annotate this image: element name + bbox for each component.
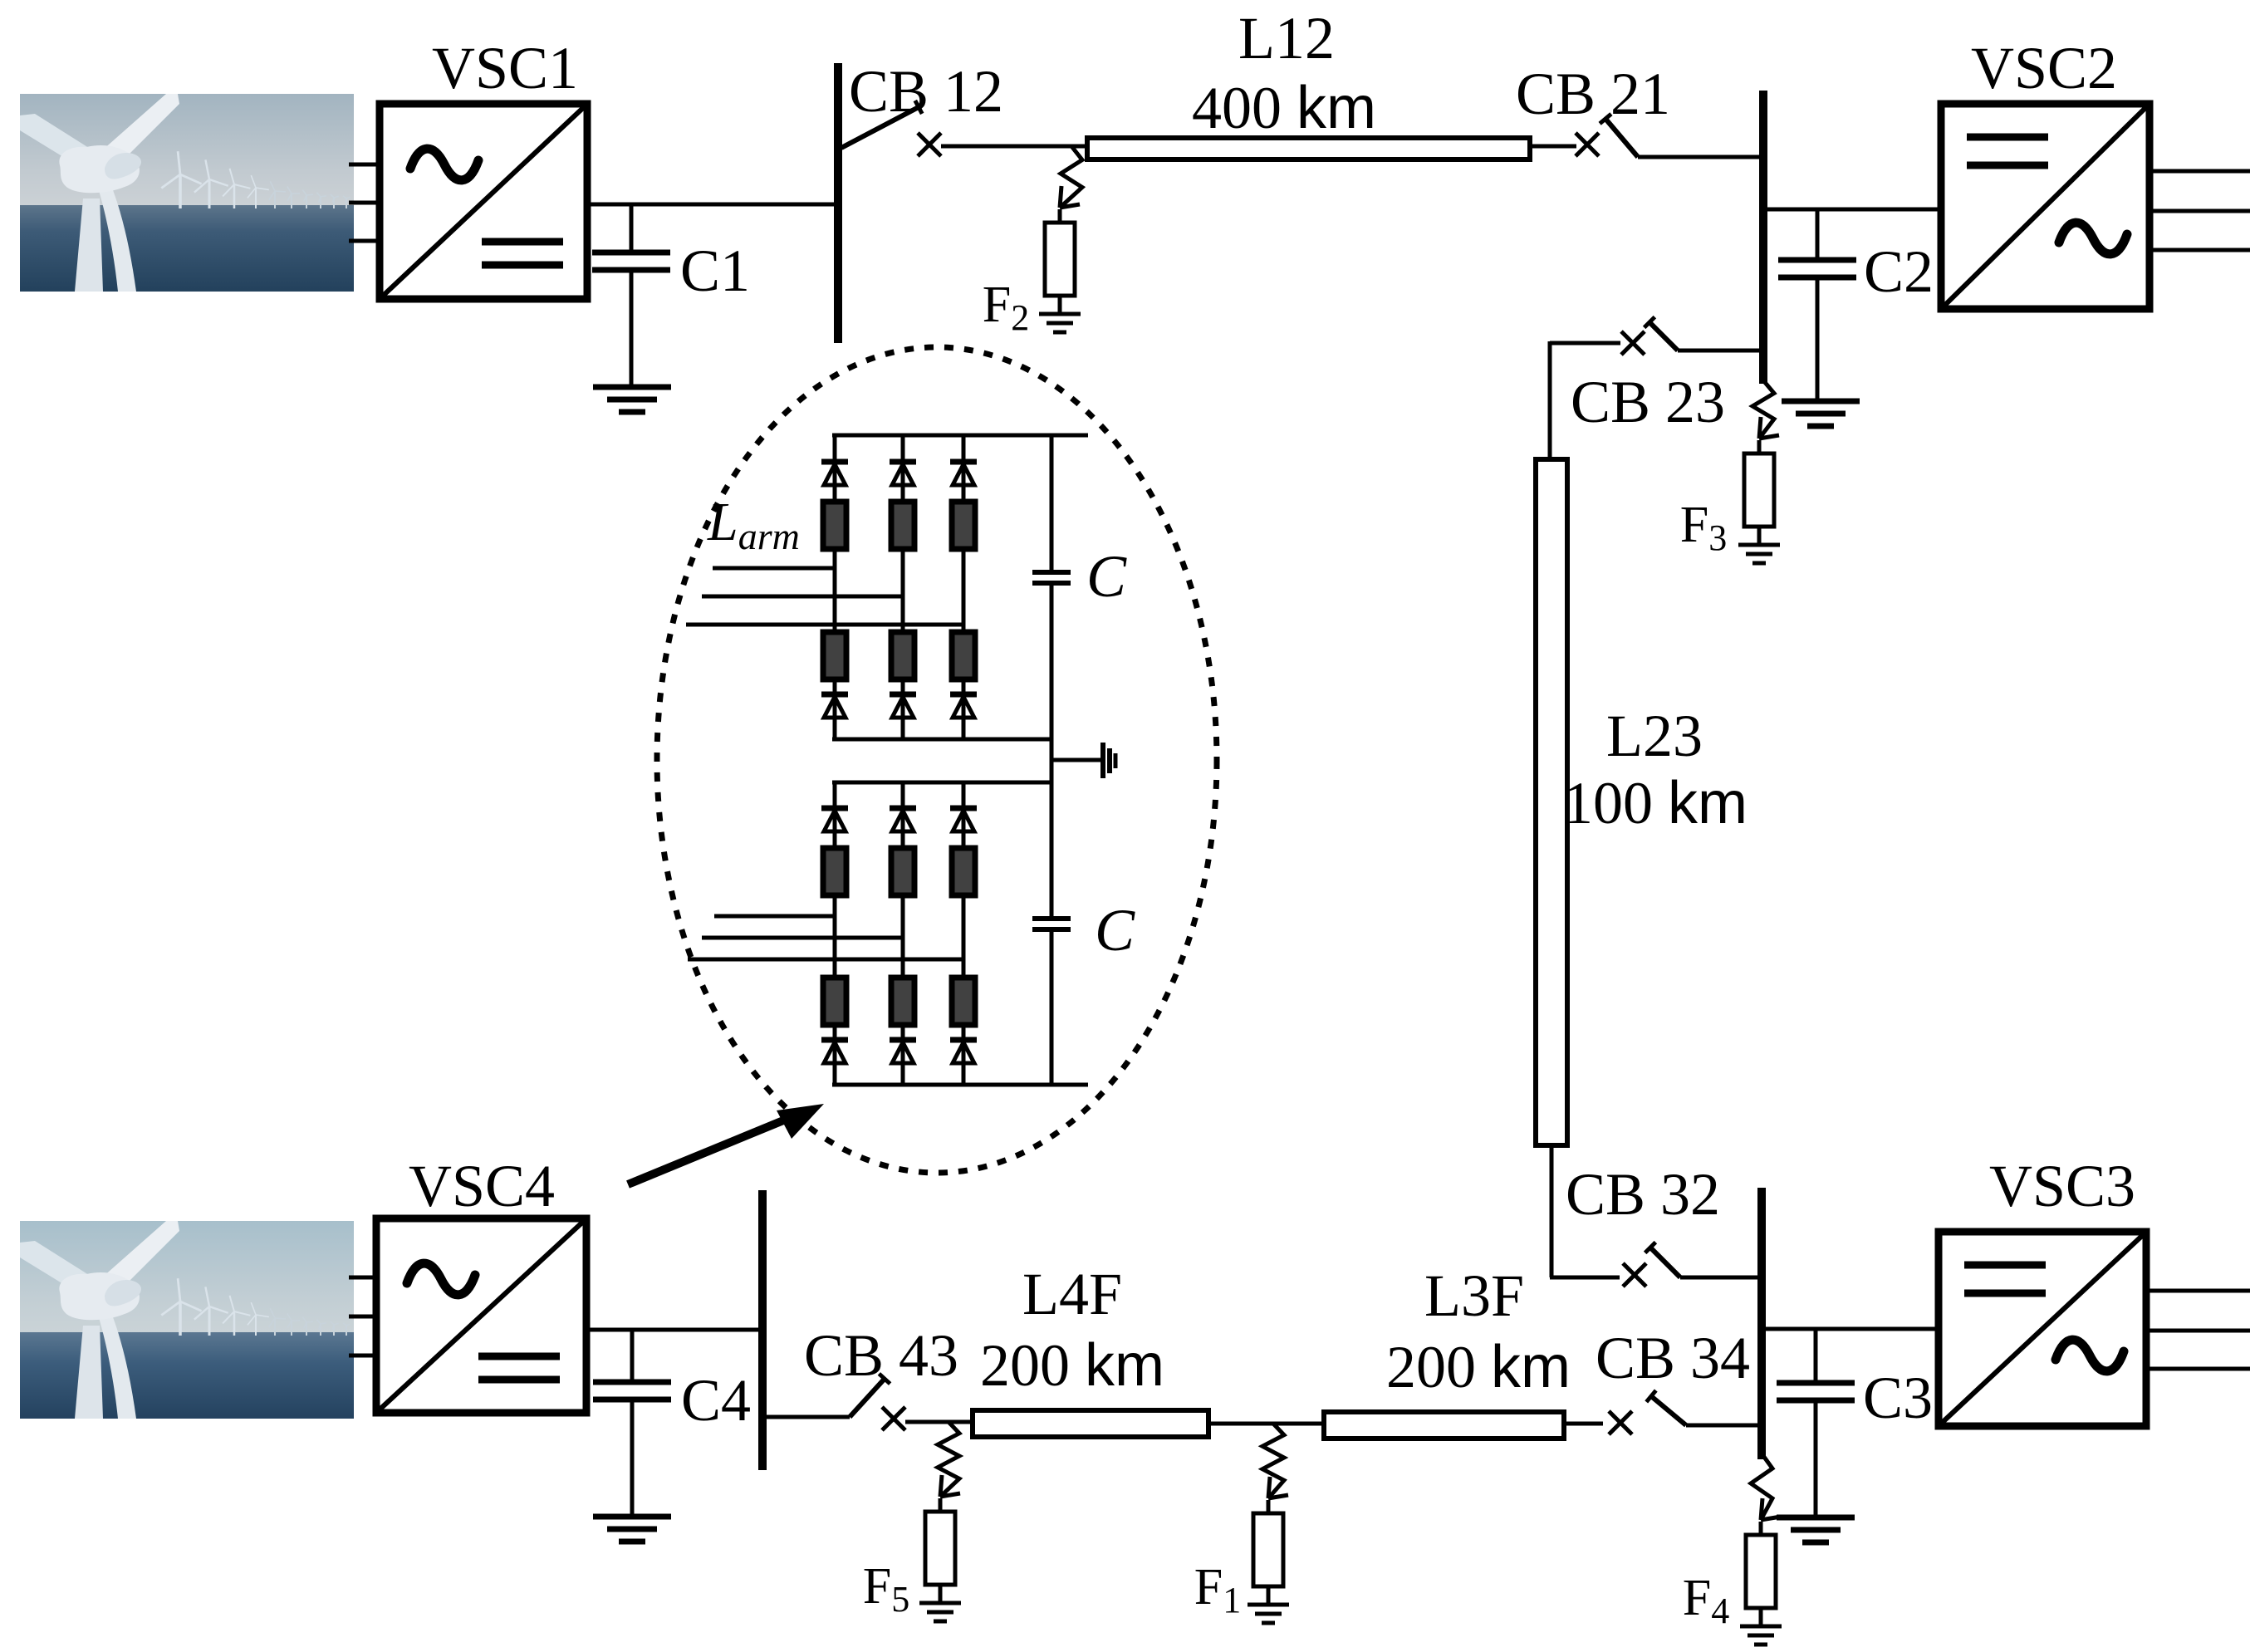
svg-text:CB 21: CB 21 — [1516, 61, 1670, 127]
wire AC phase a VSC3 — [2146, 1289, 2250, 1293]
label Larm — [707, 492, 800, 557]
capacitor C3 — [1777, 1329, 1855, 1517]
label L4F — [1022, 1261, 1122, 1327]
wire AC input upper arm phase 2 — [702, 595, 903, 599]
arm module (lower arm leg 3 lower) — [952, 978, 975, 1025]
wire CB 43 to line L4F — [905, 1420, 973, 1424]
dashed ellipse (MMC converter detail) — [657, 347, 1217, 1173]
label CB 32 — [1566, 1161, 1720, 1228]
diode (upper arm leg 1 bottom) — [821, 694, 848, 718]
wire AC phase b VSC1 — [349, 201, 380, 205]
label CB 12 — [849, 58, 1003, 125]
diode (lower arm leg 3 top) — [950, 808, 977, 831]
arm module (lower arm leg 3 upper) — [952, 848, 975, 895]
capacitor C2 — [1778, 209, 1856, 401]
svg-text:100 km: 100 km — [1563, 770, 1748, 836]
capacitor C (lower DC link) — [1032, 782, 1071, 1085]
ground (C4) — [593, 1517, 671, 1542]
diode (upper arm leg 1 top) — [821, 462, 848, 485]
wire L4F to L3F junction — [1208, 1422, 1324, 1426]
svg-text:L3F: L3F — [1424, 1262, 1524, 1329]
capacitor C4 — [593, 1330, 671, 1517]
wire AC phase c VSC4 — [349, 1354, 376, 1358]
fault F4 — [1683, 1453, 1782, 1645]
wire L3F to breaker CB 34 — [1564, 1422, 1603, 1426]
transmission line L12 — [1087, 138, 1530, 159]
bus B3 — [1757, 1188, 1766, 1459]
arm module (lower arm leg 2 upper) — [891, 848, 914, 895]
svg-text:C3: C3 — [1863, 1365, 1933, 1431]
diode (upper arm leg 2 bottom) — [890, 694, 916, 718]
wire bus B4 to CB 43 — [762, 1415, 850, 1419]
diode (lower arm leg 2 bottom) — [890, 1040, 916, 1063]
transmission line L23 — [1536, 459, 1567, 1145]
fault F1 — [1194, 1424, 1289, 1623]
wire line L12 to breaker CB 21 — [1530, 145, 1576, 149]
svg-text:C4: C4 — [681, 1367, 751, 1434]
svg-text:L12: L12 — [1238, 5, 1335, 71]
arm module (upper arm leg 2 upper) — [891, 502, 914, 549]
label 200 km (L4F) — [980, 1332, 1164, 1399]
breaker CB 32 — [1623, 1243, 1680, 1287]
fault F5 — [863, 1422, 961, 1621]
MMC upper arm leg 2 wire — [901, 435, 905, 739]
label C4 — [681, 1367, 751, 1434]
svg-text:400 km: 400 km — [1192, 75, 1376, 141]
diode (upper arm leg 2 top) — [890, 462, 916, 485]
wire AC phase c VSC3 — [2146, 1367, 2250, 1371]
label 400 km — [1192, 75, 1376, 141]
transmission line L4F — [973, 1410, 1208, 1437]
diode (lower arm leg 2 top) — [890, 808, 916, 831]
breaker CB 43 — [850, 1374, 905, 1430]
label CB 23 — [1571, 369, 1725, 435]
wire AC phase a VSC4 — [349, 1276, 376, 1280]
wire AC phase b VSC2 — [2150, 209, 2250, 213]
svg-text:CB 34: CB 34 — [1596, 1325, 1750, 1391]
transmission line L3F — [1324, 1412, 1564, 1439]
label CB 43 — [804, 1322, 958, 1389]
ground (C1) — [593, 387, 671, 412]
wire AC phase b VSC3 — [2146, 1329, 2250, 1333]
diode (upper arm leg 3 top) — [950, 462, 977, 485]
svg-text:200 km: 200 km — [980, 1332, 1164, 1399]
wire CB 12 to line L12 — [941, 145, 1087, 149]
breaker CB 23 — [1621, 317, 1678, 355]
MMC upper arm positive rail — [832, 434, 1088, 438]
wire AC phase b VSC4 — [349, 1315, 376, 1319]
converter VSC4 — [376, 1218, 586, 1413]
label C2 — [1864, 238, 1934, 305]
wire AC phase a VSC1 — [349, 163, 380, 167]
label CB 34 — [1596, 1325, 1750, 1391]
ground (C2) — [1782, 401, 1860, 426]
svg-text:C1: C1 — [680, 238, 750, 304]
wire CB 21 to bus B2 — [1638, 155, 1763, 159]
label C (lower) — [1095, 897, 1135, 963]
arrow to MMC detail — [628, 1104, 824, 1184]
label C1 — [680, 238, 750, 304]
arm module (lower arm leg 1 lower) — [823, 978, 846, 1025]
wire AC phase c VSC2 — [2150, 248, 2250, 252]
wire bus B3 to VSC3 — [1762, 1327, 1939, 1331]
MMC lower arm leg 1 wire — [833, 782, 837, 1085]
svg-text:CB 12: CB 12 — [849, 58, 1003, 125]
wire AC input upper arm phase 1 — [713, 566, 835, 571]
arm module (lower arm leg 2 lower) — [891, 978, 914, 1025]
wire L23 to breaker CB 32 — [1550, 1145, 1620, 1277]
label L3F — [1424, 1262, 1524, 1329]
svg-text:CB 43: CB 43 — [804, 1322, 958, 1389]
wire AC phase a VSC2 — [2150, 169, 2250, 174]
breaker CB 21 — [1576, 114, 1638, 157]
wire CB 34 to bus B3 — [1686, 1424, 1762, 1428]
arm module (upper arm leg 1 lower) — [823, 632, 846, 679]
converter VSC1 — [380, 104, 587, 299]
MMC lower arm leg 2 wire — [901, 782, 905, 1085]
label VSC1 — [432, 35, 578, 101]
bus B4 — [758, 1190, 767, 1470]
svg-text:CB 32: CB 32 — [1566, 1161, 1720, 1228]
bus B1 — [834, 63, 842, 343]
svg-text:VSC4: VSC4 — [409, 1153, 555, 1219]
MMC upper rail of lower arm — [832, 781, 1051, 785]
wire CB 23 to line L23 — [1550, 341, 1620, 459]
svg-text:VSC3: VSC3 — [1989, 1153, 2135, 1219]
converter VSC2 — [1941, 104, 2150, 309]
svg-text:CB 23: CB 23 — [1571, 369, 1725, 435]
wind farm photo (top-left) — [20, 94, 363, 292]
MMC lower rail of upper arm — [832, 738, 1051, 742]
wire AC input upper arm phase 3 — [686, 623, 963, 627]
bus B2 — [1759, 91, 1767, 384]
MMC upper arm leg 1 wire — [833, 435, 837, 739]
converter VSC3 — [1939, 1232, 2146, 1426]
wire AC input lower arm phase 1 — [714, 914, 835, 919]
arm module (lower arm leg 1 upper) — [823, 848, 846, 895]
wire AC phase c VSC1 — [349, 239, 380, 243]
arm module (upper arm leg 3 lower) — [952, 632, 975, 679]
wire VSC4 DC output to bus B4 — [586, 1328, 762, 1332]
capacitor C (upper DC link) — [1032, 435, 1071, 739]
wire bus B2 to VSC2 — [1763, 208, 1941, 212]
breaker CB 12 — [841, 100, 941, 156]
diode (upper arm leg 3 bottom) — [950, 694, 977, 718]
ground (C3) — [1777, 1517, 1855, 1542]
MMC lower arm negative rail — [832, 1083, 1088, 1087]
capacitor C1 — [592, 204, 670, 387]
MMC upper arm leg 3 wire — [962, 435, 966, 739]
label 200 km (L3F) — [1386, 1334, 1571, 1400]
label L12 — [1238, 5, 1335, 71]
label C3 — [1863, 1365, 1933, 1431]
wire VSC1 DC output to bus B1 — [587, 203, 838, 207]
arm module (upper arm leg 2 lower) — [891, 632, 914, 679]
MMC lower arm leg 3 wire — [962, 782, 966, 1085]
svg-text:L4F: L4F — [1022, 1261, 1122, 1327]
diode (lower arm leg 1 bottom) — [821, 1040, 848, 1063]
label VSC4 — [409, 1153, 555, 1219]
breaker CB 34 — [1609, 1390, 1686, 1434]
label VSC3 — [1989, 1153, 2135, 1219]
label VSC2 — [1971, 35, 2117, 101]
fault F2 — [983, 146, 1082, 338]
diode (lower arm leg 1 top) — [821, 808, 848, 831]
label L23 — [1606, 703, 1703, 769]
svg-text:C2: C2 — [1864, 238, 1934, 305]
label C (upper) — [1086, 543, 1127, 610]
diode (lower arm leg 3 bottom) — [950, 1040, 977, 1063]
arm module (upper arm leg 1 upper) — [823, 502, 846, 549]
svg-text:C: C — [1095, 897, 1135, 963]
MMC midpoint ground stub — [1051, 739, 1115, 782]
wire AC input lower arm phase 3 — [688, 958, 963, 962]
arm module (upper arm leg 3 upper) — [952, 502, 975, 549]
svg-text:L23: L23 — [1606, 703, 1703, 769]
wire AC input lower arm phase 2 — [702, 936, 903, 940]
svg-text:200 km: 200 km — [1386, 1334, 1571, 1400]
svg-text:VSC1: VSC1 — [432, 35, 578, 101]
wire bus B2 to CB 23 — [1678, 349, 1763, 353]
wire CB 32 to bus B3 — [1680, 1276, 1762, 1280]
svg-text:VSC2: VSC2 — [1971, 35, 2117, 101]
svg-text:C: C — [1086, 543, 1127, 610]
wind farm photo (bottom-left) — [20, 1221, 363, 1419]
label 100 km — [1563, 770, 1748, 836]
fault F3 — [1680, 380, 1780, 563]
label CB 21 — [1516, 61, 1670, 127]
